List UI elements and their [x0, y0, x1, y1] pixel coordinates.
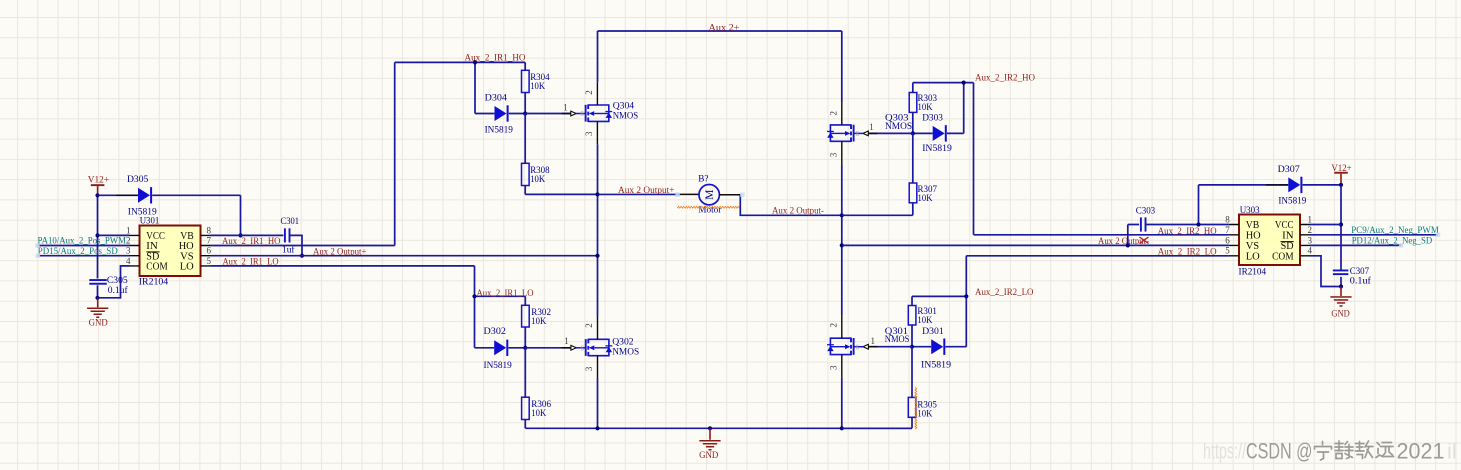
pin number 1 of Q302	[564, 336, 569, 346]
svg-text:4: 4	[1308, 246, 1313, 256]
label IR2104 of U303	[1239, 267, 1267, 278]
net label Aux_2_IR2_HO (top)	[975, 72, 1035, 83]
svg-text:COM: COM	[1272, 252, 1294, 263]
wire D304 row	[475, 113, 525, 115]
pin number 1 of Q303	[869, 122, 874, 132]
svg-text:Aux 2+: Aux 2+	[709, 22, 740, 33]
svg-text:IR2104: IR2104	[1239, 267, 1267, 278]
svg-text:7: 7	[207, 235, 212, 245]
net label PD15/Aux_2_Pos_SD	[38, 246, 118, 257]
label D305	[127, 174, 148, 185]
svg-text:6: 6	[580, 344, 584, 352]
pins U301 right stubs	[201, 235, 211, 266]
label B? of motor	[698, 173, 708, 184]
net label Aux_2_IR2_LO (chip)	[1158, 247, 1217, 258]
svg-text:IN5819: IN5819	[484, 360, 512, 371]
wire Aux 2+ rail	[598, 31, 842, 102]
wire HO-right long riser	[974, 83, 1229, 235]
svg-text:5: 5	[207, 256, 212, 266]
label IN5819 of D302	[484, 360, 512, 371]
svg-text:6: 6	[580, 110, 584, 118]
capacitor C307	[1333, 270, 1349, 276]
label R303	[918, 93, 938, 104]
label Motor	[698, 205, 722, 216]
wire D303 row	[913, 132, 964, 134]
svg-text:10K: 10K	[917, 408, 932, 419]
svg-text:1: 1	[564, 336, 569, 346]
net label PA10/Aux_2_Pos_PWM	[38, 236, 127, 247]
no-ERC squiggle at R305	[915, 388, 917, 430]
wire left bridge vertical	[597, 144, 599, 428]
svg-text:V12+: V12+	[1331, 163, 1352, 174]
wire Q302 gate	[525, 347, 571, 349]
label R302	[531, 307, 551, 318]
junction D305/VB row	[238, 233, 242, 237]
wire SD-right row (PD12)	[1310, 244, 1401, 246]
svg-text:NMOS: NMOS	[885, 121, 912, 132]
wire COM-right to ground node	[1310, 256, 1341, 287]
pin number 3 of Q304	[584, 131, 594, 136]
svg-text:Aux_2_IR1_HO: Aux_2_IR1_HO	[222, 236, 281, 247]
net label Aux_2_IR1_HO (top)	[465, 52, 526, 63]
watermark CSDN	[1203, 438, 1457, 463]
label NMOS of Q304	[613, 111, 639, 122]
wire end hotspot markers	[35, 192, 1440, 258]
svg-text:5: 5	[1225, 246, 1230, 256]
value 0.1uf of C305	[108, 285, 129, 296]
wire IN row (PA10)	[38, 245, 130, 247]
net label Aux 2 Output- (motor)	[772, 205, 824, 216]
pin numbers U301 left 1-4	[126, 225, 131, 265]
svg-text:3: 3	[584, 131, 594, 136]
label IN5819 of D305	[128, 207, 157, 218]
svg-text:3: 3	[1308, 235, 1313, 245]
svg-text:D307: D307	[1278, 164, 1300, 175]
wire LO row	[211, 266, 475, 348]
resistor R301	[908, 296, 916, 346]
svg-text:1: 1	[870, 336, 875, 346]
pin name HO	[1246, 231, 1261, 242]
value 10K of R307	[918, 193, 933, 204]
junction Output+ motor node	[595, 192, 599, 196]
label IN5819 of D301	[921, 360, 951, 371]
junction bottom rail left	[595, 426, 599, 430]
svg-text:IN5819: IN5819	[922, 143, 952, 154]
junction C301/VS row	[300, 254, 304, 258]
svg-text:6: 6	[1225, 235, 1230, 245]
svg-text:7: 7	[1225, 225, 1230, 235]
wire motor right lead	[719, 195, 841, 216]
label IN5819 of D303	[922, 143, 952, 154]
label D304	[485, 92, 507, 103]
junction bottom rail gnd	[708, 426, 712, 430]
wire V12+ vertical to C307	[1340, 185, 1342, 287]
svg-text:PA10/Aux_2_Pos_PWM: PA10/Aux_2_Pos_PWM	[38, 236, 127, 247]
value 10K of R302	[531, 316, 546, 327]
junction C303/Output- row	[1126, 243, 1130, 247]
svg-text:1: 1	[563, 103, 568, 113]
label IN5819 of D304	[485, 125, 513, 136]
label R308	[530, 165, 549, 176]
svg-text:NMOS: NMOS	[885, 334, 910, 345]
junction D307/VB row	[1196, 222, 1200, 226]
value 10K of R308	[530, 174, 545, 185]
pin number 2 of Q302	[584, 323, 594, 328]
pin name SD with overline	[146, 251, 159, 262]
svg-text:IN5819: IN5819	[1278, 196, 1306, 207]
pin number 2 of Q304	[584, 90, 594, 95]
svg-text:GND: GND	[699, 450, 718, 461]
svg-text:4: 4	[126, 256, 131, 266]
svg-text:10K: 10K	[530, 174, 545, 185]
pin name IN	[1282, 231, 1294, 242]
label D303	[922, 113, 943, 124]
svg-text:D305: D305	[127, 174, 148, 185]
wire Aux_2_IR1_HO top row	[395, 62, 526, 113]
ground GND (right)	[1330, 287, 1351, 320]
svg-text:C303: C303	[1136, 205, 1156, 216]
label R301	[917, 306, 937, 317]
svg-text:SD: SD	[1281, 241, 1294, 252]
wire Q304 gate	[525, 113, 571, 115]
svg-text:1: 1	[1308, 214, 1313, 224]
net label Aux_2_IR1_LO (mid)	[477, 288, 534, 299]
value 10K of R304	[530, 81, 545, 92]
svg-text:PD12/Aux_2_Neg_SD: PD12/Aux_2_Neg_SD	[1352, 235, 1433, 246]
wire D307 row	[1199, 184, 1342, 186]
label R307	[918, 184, 938, 195]
motor M letter	[704, 190, 716, 200]
value 10K of R305	[917, 408, 932, 419]
svg-text:NMOS: NMOS	[613, 111, 639, 122]
pin marker Q301 gate	[863, 344, 878, 349]
label IR2104 of U301	[139, 277, 169, 288]
svg-text:CSDN @: CSDN @	[1246, 438, 1313, 463]
wire C301 to VS row	[289, 235, 302, 255]
wire COM row to ground node	[98, 266, 130, 298]
junction V12+/D307 row	[1339, 183, 1343, 187]
wire motor left lead	[598, 193, 699, 195]
label Q303	[885, 113, 909, 124]
label IN5819 of D307	[1278, 196, 1306, 207]
junction HO-right top row	[962, 81, 966, 85]
transistor Q301	[827, 315, 863, 377]
junction C307/COM node	[1339, 284, 1343, 288]
diode D301	[931, 339, 945, 355]
junction C305/COM node	[95, 296, 99, 300]
resistor R307	[842, 133, 917, 215]
resistor R304	[522, 62, 530, 113]
ground GND (center)	[699, 428, 721, 461]
junction Output+ VS node	[595, 254, 599, 258]
svg-text:2: 2	[126, 235, 131, 245]
pin number 1 of Q304	[563, 103, 568, 113]
label NMOS of Q303	[885, 121, 912, 132]
svg-text:IN5819: IN5819	[485, 125, 513, 136]
svg-text:3: 3	[584, 366, 594, 371]
svg-text:VB: VB	[1246, 220, 1260, 231]
svg-text:2: 2	[829, 111, 839, 116]
pin name COM	[1272, 252, 1294, 263]
svg-text:2: 2	[1308, 225, 1313, 235]
junction V12+/D305	[95, 193, 99, 197]
svg-text:10K: 10K	[531, 408, 546, 419]
pin name VS	[180, 251, 194, 262]
junction Q304 gate node	[523, 111, 527, 115]
label C305	[107, 275, 128, 286]
wire Aux_2_IR1_LO label row	[475, 295, 526, 297]
wire D305 row	[98, 195, 241, 235]
svg-text:6: 6	[207, 246, 212, 256]
svg-text:2: 2	[584, 323, 594, 328]
svg-text:HO: HO	[1246, 231, 1261, 242]
wire bottom rail	[525, 427, 912, 429]
label U303	[1240, 205, 1260, 216]
power port V12+ (right)	[1331, 163, 1352, 183]
junction HO top row	[473, 60, 477, 64]
svg-text:il: il	[1447, 438, 1457, 463]
svg-text:0.1uf: 0.1uf	[108, 285, 129, 296]
error cross at C303	[1140, 237, 1149, 244]
pin name HO	[179, 241, 194, 252]
label C303	[1136, 205, 1156, 216]
label NMOS of Q301	[885, 334, 910, 345]
pin marker Q303 gate	[863, 131, 878, 136]
svg-text:IN5819: IN5819	[921, 360, 951, 371]
label C307	[1350, 266, 1369, 277]
wire V12+ vertical to C305	[97, 195, 99, 297]
svg-text:0.1uf: 0.1uf	[1350, 276, 1372, 287]
diode D304	[495, 105, 509, 121]
svg-text:U303: U303	[1240, 205, 1260, 216]
label Q304	[613, 101, 634, 112]
pins U303 left stubs	[1229, 225, 1239, 256]
svg-text:D301: D301	[922, 326, 944, 337]
pin number 1 of Q301	[870, 336, 875, 346]
capacitor C301	[284, 228, 290, 242]
svg-text:3: 3	[829, 152, 839, 157]
svg-text:10K: 10K	[531, 316, 546, 327]
pin numbers U303 left 8-5	[1225, 214, 1230, 255]
svg-text:10K: 10K	[530, 81, 545, 92]
junction Output- row node	[840, 243, 844, 247]
label R304	[530, 72, 549, 83]
svg-text:C301: C301	[281, 216, 300, 227]
svg-text:LO: LO	[180, 262, 194, 273]
svg-text:VCC: VCC	[1275, 220, 1294, 231]
label C301	[281, 216, 300, 227]
pins U303 right stubs	[1300, 225, 1310, 256]
svg-text:10K: 10K	[917, 315, 932, 326]
diode D305	[138, 187, 152, 203]
label R306	[531, 399, 551, 410]
resistor R305	[842, 347, 916, 429]
svg-text:6: 6	[855, 130, 859, 138]
pin name VS	[1246, 241, 1260, 252]
pin marker Q304 gate	[562, 111, 577, 116]
net label PD12/Aux_2_Neg_SD	[1352, 235, 1433, 246]
pin number 3 of Q303	[829, 152, 839, 157]
svg-text:LO: LO	[1246, 252, 1260, 263]
junction Output- motor node	[840, 213, 844, 217]
pin name IN	[146, 241, 158, 252]
label Q302	[612, 336, 633, 347]
svg-text:Aux 2 Output-: Aux 2 Output-	[772, 205, 824, 216]
net label Aux_2_IR2_LO (mid)	[975, 287, 1034, 298]
transistor Q304	[576, 82, 612, 144]
svg-text:GND: GND	[1331, 309, 1349, 320]
svg-text:PD15/Aux_2_Pos_SD: PD15/Aux_2_Pos_SD	[38, 246, 118, 257]
junction V12+/VCC row	[95, 233, 99, 237]
label Q301	[885, 326, 908, 337]
wire LO-right row	[966, 255, 1229, 257]
value 10K of R303	[918, 102, 933, 113]
svg-text:D302: D302	[484, 326, 506, 337]
wire Aux 2 Output- row	[842, 244, 1229, 246]
svg-text:6: 6	[855, 343, 859, 351]
svg-text:C305: C305	[107, 275, 128, 286]
wire VB-right row with C303 drop	[1128, 225, 1229, 246]
svg-text:D304: D304	[485, 92, 507, 103]
resistor R306	[522, 348, 530, 429]
op-amp driver U303 body	[1239, 215, 1300, 266]
value 10K of R306	[531, 408, 546, 419]
label R305	[917, 399, 937, 410]
net label Aux 2 Output- (chip)	[1098, 236, 1149, 247]
label D302	[484, 326, 506, 337]
junction Q301 gate node	[910, 345, 914, 349]
net label Aux 2+	[709, 22, 740, 33]
junction Q302 gate node	[523, 346, 527, 350]
svg-text:D303: D303	[922, 113, 943, 124]
capacitor C303	[1140, 217, 1147, 231]
wire VCC-right row	[1310, 224, 1341, 226]
value 1uf of C301	[282, 245, 295, 256]
resistor R302	[522, 296, 530, 348]
wire SD row (PD15)	[38, 255, 130, 257]
svg-text:V12+: V12+	[88, 174, 110, 185]
svg-text:2021: 2021	[1397, 438, 1445, 463]
svg-text:3: 3	[126, 246, 131, 256]
wire VS row Aux 2 Output+	[211, 255, 598, 257]
transistor Q303	[827, 102, 863, 164]
junction LO label row	[472, 294, 476, 298]
pin numbers U301 right 8-5	[207, 225, 212, 265]
transistor Q302	[576, 317, 612, 379]
svg-text:Aux_2_IR2_LO: Aux_2_IR2_LO	[975, 287, 1034, 298]
diode D303	[933, 125, 947, 141]
label D301	[922, 326, 944, 337]
net label Aux 2 Output+ (motor)	[618, 185, 675, 196]
wire VCC row	[98, 234, 130, 236]
junction LO-right label row	[964, 294, 968, 298]
svg-text:IN: IN	[1282, 231, 1294, 242]
pin numbers U303 right 1-4	[1308, 214, 1313, 255]
pin name LO	[180, 262, 194, 273]
diode D302	[494, 340, 508, 356]
svg-text:https://: https://	[1203, 438, 1247, 463]
net label Aux_2_IR1_HO (chip)	[222, 236, 281, 247]
svg-text:1: 1	[126, 225, 131, 235]
pin marker Q302 gate	[562, 345, 577, 350]
svg-text:U301: U301	[140, 215, 160, 226]
wire D302 row	[475, 347, 526, 349]
svg-text:B?: B?	[698, 173, 708, 184]
power port V12+ (left)	[88, 174, 110, 195]
ground GND (left)	[87, 298, 108, 329]
pin number 2 of Q303	[829, 111, 839, 116]
wire Q301 gate	[869, 346, 912, 348]
pin name LO	[1246, 252, 1260, 263]
wire VB row to C301	[211, 234, 284, 236]
resistor R303	[909, 83, 917, 134]
junction V12+/VCC row	[1339, 222, 1343, 226]
svg-text:8: 8	[1225, 214, 1230, 224]
wire Aux_2_IR2_LO riser	[912, 256, 966, 347]
label U301	[140, 215, 160, 226]
wire D301 row	[912, 346, 966, 348]
wire HO row to vertical riser	[211, 62, 395, 245]
pin name COM	[146, 262, 168, 273]
pin name VB	[180, 231, 194, 242]
net label Aux 2 Output+ (chip)	[313, 247, 367, 258]
wire IN-right row (PC9)	[1310, 234, 1438, 236]
no-ERC squiggle under motor	[677, 206, 739, 208]
pin name VCC	[146, 231, 165, 242]
wire Q303 gate	[869, 132, 913, 134]
svg-text:Aux_2_IR2_HO: Aux_2_IR2_HO	[1158, 226, 1217, 237]
label NMOS of Q302	[612, 347, 639, 358]
svg-text:IR2104: IR2104	[139, 277, 169, 288]
pin number 3 of Q302	[584, 366, 594, 371]
pin name VCC	[1275, 220, 1294, 231]
wire Aux_2_IR2_HO top row	[913, 83, 974, 134]
net label PC9/Aux_2_Neg_PWM	[1351, 225, 1439, 236]
pin name SD with overline	[1281, 241, 1294, 252]
wire D307 riser	[1198, 185, 1200, 225]
resistor R308	[522, 114, 598, 195]
svg-text:Aux_2_IR2_HO: Aux_2_IR2_HO	[975, 72, 1035, 83]
svg-text:Aux 2 Output+: Aux 2 Output+	[313, 247, 367, 258]
pins U301 left stubs	[130, 235, 140, 266]
op-amp driver U301 body	[140, 226, 201, 277]
label D307	[1278, 164, 1300, 175]
capacitor C305	[89, 279, 107, 285]
net label Aux_2_IR2_HO (chip)	[1158, 226, 1217, 237]
svg-text:PC9/Aux_2_Neg_PWM: PC9/Aux_2_Neg_PWM	[1351, 225, 1439, 236]
wire right bridge vertical	[841, 164, 843, 428]
motor B? circle	[699, 185, 719, 205]
value 0.1uf of C307	[1350, 276, 1372, 287]
pin name VB	[1246, 220, 1260, 231]
value 10K of R301	[917, 315, 932, 326]
diode D307	[1288, 177, 1302, 193]
junction Q303 gate node	[911, 131, 915, 135]
svg-text:COM: COM	[146, 262, 168, 273]
pin number 2 of Q301	[829, 323, 839, 328]
svg-text:2: 2	[829, 323, 839, 328]
svg-text:2: 2	[584, 90, 594, 95]
svg-text:M: M	[704, 190, 716, 200]
pin number 3 of Q301	[829, 365, 839, 370]
svg-text:GND: GND	[89, 317, 108, 328]
net label Aux_2_IR1_LO (chip)	[223, 256, 279, 267]
svg-text:3: 3	[829, 365, 839, 370]
svg-text:8: 8	[207, 225, 212, 235]
junction bottom rail right	[840, 426, 844, 430]
svg-text:NMOS: NMOS	[612, 347, 639, 358]
svg-text:1: 1	[869, 122, 874, 132]
